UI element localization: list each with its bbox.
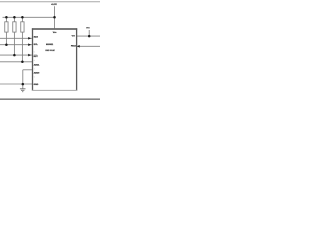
svg-text:9: 9 <box>34 51 35 53</box>
svg-text:MAX6621: MAX6621 <box>46 43 53 45</box>
svg-text:PECI-TO-I2C: PECI-TO-I2C <box>45 50 54 52</box>
svg-text:PECI: PECI <box>71 45 76 47</box>
svg-text:+3.3V: +3.3V <box>51 3 57 6</box>
svg-text:GND: GND <box>34 83 39 85</box>
svg-text:7: 7 <box>34 68 35 70</box>
svg-text:RST: RST <box>34 55 38 57</box>
svg-text:5: 5 <box>34 76 35 78</box>
svg-text:ADD0: ADD0 <box>34 72 40 74</box>
svg-text:SCL: SCL <box>34 43 38 45</box>
svg-text:SDA: SDA <box>34 36 38 38</box>
svg-text:ADD1: ADD1 <box>34 64 40 66</box>
svg-text:8: 8 <box>34 60 35 62</box>
